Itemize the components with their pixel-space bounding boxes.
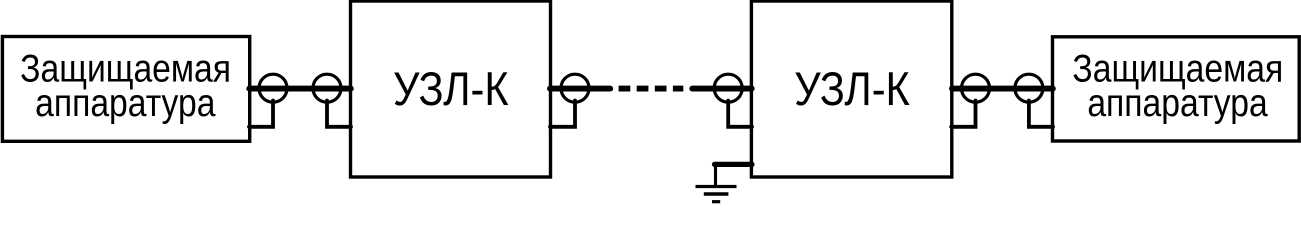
wire: dashed long-line segment between УЗЛ-К devices <box>619 86 684 92</box>
wire: X5 shield drop to right УЗЛ-К <box>951 101 975 127</box>
svg-text:УЗЛ-К: УЗЛ-К <box>794 64 910 116</box>
wire: X1 shield drop to left box <box>249 101 273 127</box>
svg-text:УЗЛ-К: УЗЛ-К <box>393 64 509 116</box>
block U2: УЗЛ-К right protection device box <box>751 1 951 177</box>
block: right protected equipment box <box>1053 37 1300 141</box>
svg-text:аппаратура: аппаратура <box>1087 81 1268 125</box>
wire: X6 shield drop to right box <box>1029 101 1053 127</box>
ground <box>696 164 737 202</box>
block: left protected equipment box <box>2 37 249 142</box>
block U1: УЗЛ-К left protection device box <box>351 1 551 177</box>
wire: right УЗЛ-К to right box (thick line through X5, X6) <box>952 86 1053 92</box>
label: Защищаемая аппаратура (right) <box>1072 46 1283 124</box>
svg-text:аппаратура: аппаратура <box>35 81 216 125</box>
connector terminal X4 (circle) <box>714 74 742 102</box>
wire: left УЗЛ-К right side solid segment through X3 <box>550 86 610 92</box>
connector terminal X2 (circle) <box>313 74 341 102</box>
wire: left box to left УЗЛ-К (thick line through X1, X2) <box>249 86 350 92</box>
wire: X3 shield drop to left УЗЛ-К <box>550 101 575 127</box>
connector terminal X3 (circle) <box>561 74 589 102</box>
wire: X4 shield drop to right УЗЛ-К <box>728 101 752 127</box>
connector terminal X1 (circle) <box>259 74 287 102</box>
connector terminal X5 (circle) <box>962 74 990 102</box>
label: Защищаемая аппаратура (left) <box>20 46 231 124</box>
wire: right УЗЛ-К left side solid segment through X4 <box>692 86 751 92</box>
connector terminal X6 (circle) <box>1015 74 1043 102</box>
wire: X2 shield drop to left УЗЛ-К <box>327 101 351 127</box>
wire: ground connection from right УЗЛ-К <box>715 162 753 167</box>
